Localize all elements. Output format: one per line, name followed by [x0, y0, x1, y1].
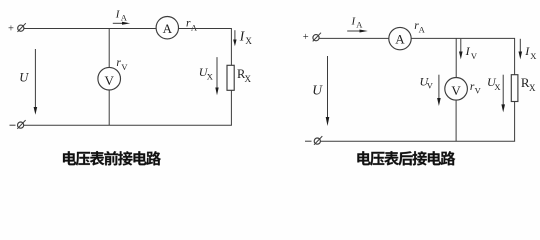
- svg-text:X: X: [494, 82, 500, 92]
- value label r_V (left circuit): [116, 57, 128, 72]
- svg-text:U: U: [312, 82, 323, 97]
- current label I_X with arrow (right circuit): [519, 39, 537, 61]
- wire: left top, ammeter to top-right corner, down to resistor: [179, 29, 232, 66]
- svg-text:X: X: [207, 71, 213, 81]
- voltmeter V1: [98, 67, 121, 90]
- wire: right side below resistor (right circuit): [514, 102, 516, 142]
- value label r_A (left circuit): [186, 18, 198, 33]
- wire: right side below resistor (left circuit): [230, 90, 232, 125]
- voltage label U with arrow (right circuit): [312, 56, 329, 126]
- resistor R_X (left circuit): [227, 65, 234, 90]
- voltage label U_V with arrow (right circuit): [420, 74, 441, 106]
- svg-text:X: X: [245, 36, 252, 46]
- wire: voltmeter branch top (right circuit): [455, 38, 457, 77]
- svg-text:V: V: [475, 86, 482, 96]
- voltage label U_X with arrow (left circuit): [199, 57, 219, 95]
- terminal + (left circuit, top-left input): [8, 23, 26, 34]
- ammeter A1: [156, 17, 178, 39]
- terminal - (left circuit, bottom-left input): [10, 120, 26, 129]
- svg-text:A: A: [395, 32, 405, 47]
- value label R_X (left circuit): [237, 67, 252, 84]
- wire: right top, ammeter to top-right corner, down to resistor: [411, 38, 514, 74]
- svg-text:A: A: [163, 21, 173, 36]
- wire: right top, + terminal to ammeter: [319, 37, 389, 39]
- svg-text:X: X: [245, 74, 252, 84]
- wire: voltmeter branch bottom (left circuit): [108, 90, 110, 125]
- svg-text:X: X: [530, 51, 536, 61]
- svg-text:A: A: [121, 13, 128, 23]
- wire: voltmeter branch top (left circuit): [108, 29, 110, 68]
- svg-text:V: V: [451, 83, 461, 98]
- wire: bottom (right circuit): [321, 140, 516, 142]
- svg-text:V: V: [471, 51, 478, 61]
- terminal - (right circuit, bottom-left input): [305, 136, 322, 145]
- svg-text:A: A: [356, 20, 363, 30]
- voltmeter V2: [445, 78, 468, 101]
- ammeter A2: [389, 27, 411, 49]
- current label I_A with arrow (left circuit): [113, 9, 130, 25]
- svg-text:A: A: [191, 22, 198, 32]
- svg-text:A: A: [419, 24, 426, 34]
- svg-text:V: V: [121, 62, 128, 72]
- caption: 电压表前接电路 (left): [63, 151, 161, 165]
- resistor R_X (right circuit): [511, 75, 518, 102]
- value label R_X (right circuit): [521, 75, 536, 93]
- wire: bottom (left circuit): [24, 124, 232, 126]
- current label I_V with arrow (right circuit): [459, 39, 478, 61]
- wire: voltmeter branch bottom (right circuit): [455, 100, 457, 141]
- current label I_X with arrow (left circuit): [233, 29, 252, 47]
- voltage label U_X with arrow (right circuit): [487, 75, 505, 113]
- svg-text:+: +: [8, 23, 14, 34]
- svg-text:X: X: [529, 83, 536, 93]
- terminal + (right circuit, top-left input): [303, 32, 321, 43]
- caption: 电压表后接电路 (right): [357, 151, 455, 165]
- svg-text:V: V: [105, 73, 115, 88]
- value label r_V (right circuit): [470, 81, 482, 95]
- value label r_A (right circuit): [414, 20, 425, 34]
- current label I_A with arrow (right circuit): [347, 16, 368, 33]
- wire: left top, + terminal to ammeter: [24, 28, 157, 30]
- svg-text:+: +: [303, 32, 309, 43]
- svg-text:V: V: [427, 81, 434, 91]
- svg-text:U: U: [19, 71, 29, 85]
- voltage label U with arrow (left circuit): [19, 49, 37, 115]
